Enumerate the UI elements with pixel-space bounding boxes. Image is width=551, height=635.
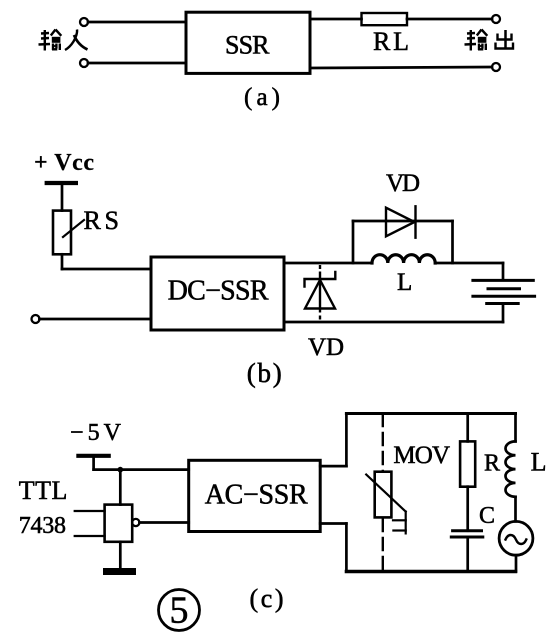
svg-text:TTL: TTL [19,476,68,505]
svg-text:(c): (c) [250,584,284,613]
svg-text:C: C [479,503,495,529]
svg-text:+ Vcc: + Vcc [34,150,94,176]
svg-text:L: L [531,447,547,476]
svg-text:VD: VD [308,334,344,361]
svg-text:DC−SSR: DC−SSR [168,275,269,306]
svg-text:−5V: −5V [70,420,122,446]
svg-text:AC−SSR: AC−SSR [205,480,308,511]
svg-text:R: R [484,450,500,476]
svg-text:(a): (a) [244,84,280,111]
svg-text:7438: 7438 [19,513,66,539]
svg-text:VD: VD [386,170,420,197]
svg-text:SSR: SSR [225,30,270,59]
svg-text:5: 5 [170,590,189,632]
svg-text:(b): (b) [247,358,282,388]
svg-text:MOV: MOV [393,442,450,469]
svg-text:L: L [397,269,412,296]
